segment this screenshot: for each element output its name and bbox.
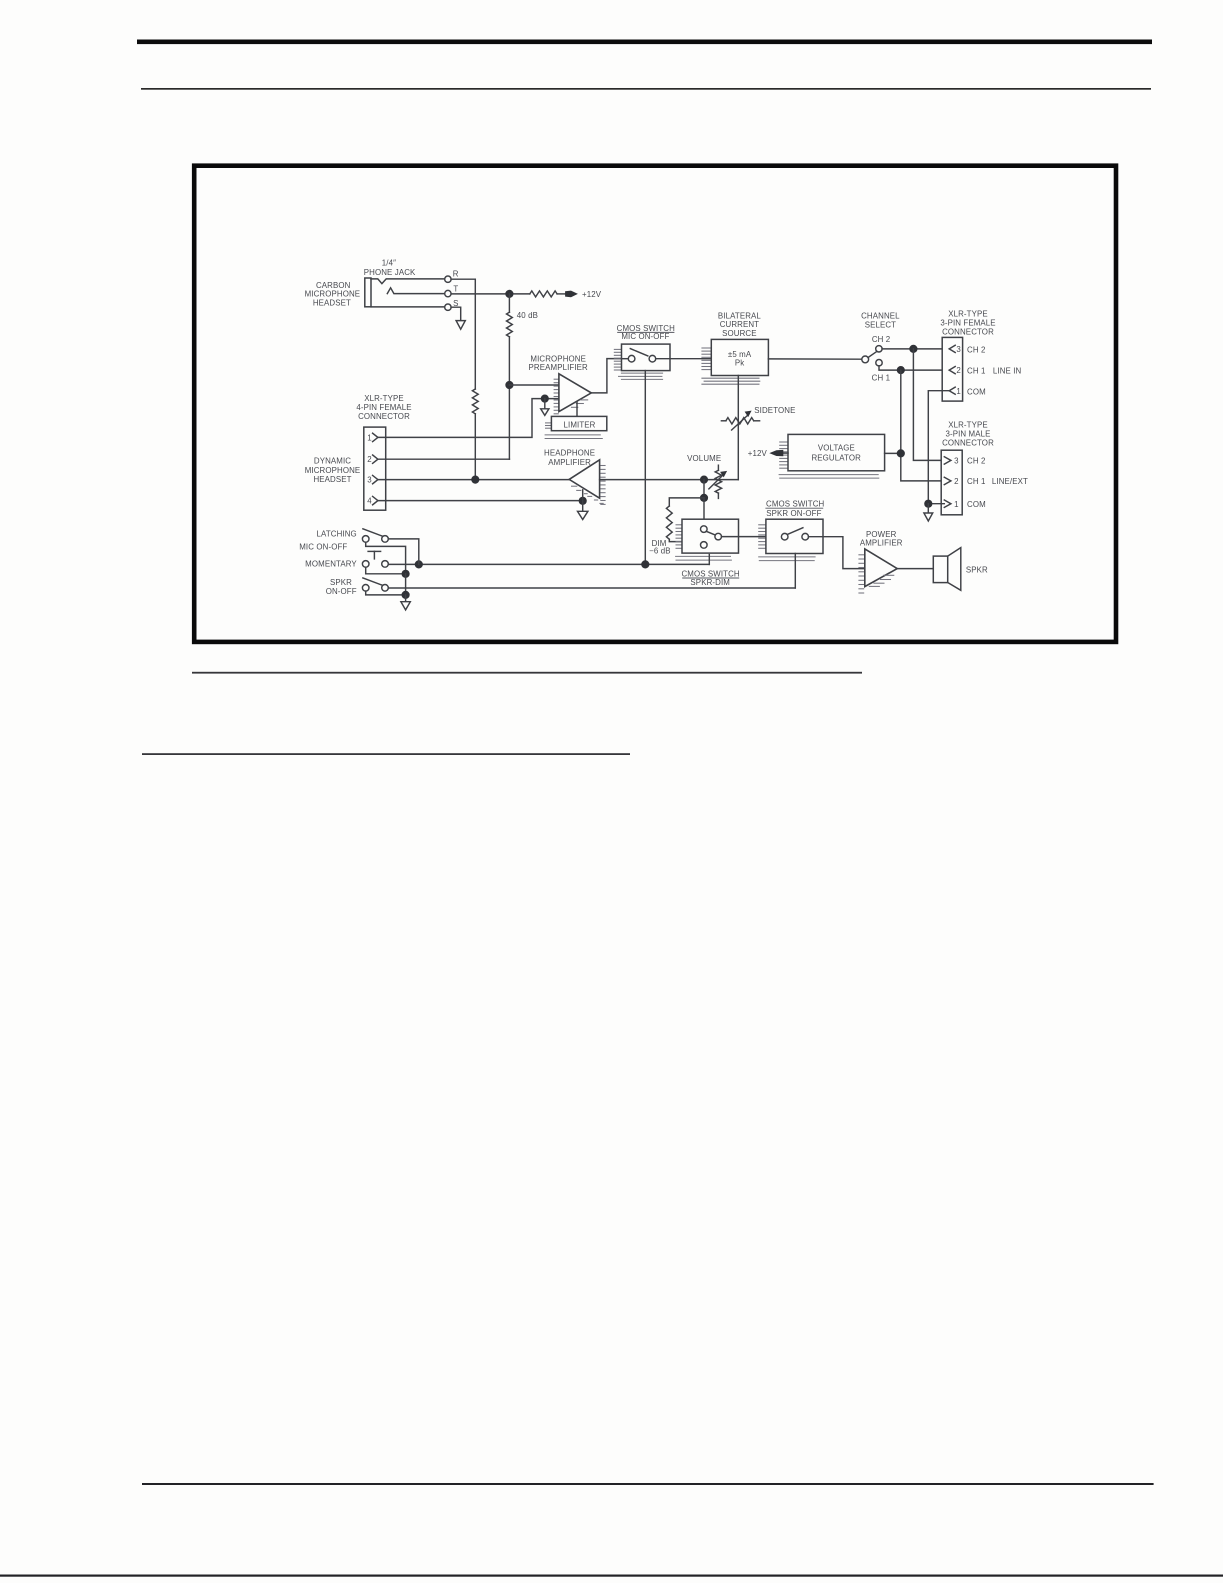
svg-text:CH 2: CH 2 — [967, 346, 985, 355]
pin 3 of J4 — [944, 457, 951, 464]
switch S3 spkr on-off — [362, 585, 369, 592]
wire node to preamp input — [509, 384, 558, 386]
wire momentary common bracket — [366, 567, 406, 574]
svg-text:SOURCE: SOURCE — [722, 329, 756, 338]
switch S2 momentary — [362, 561, 369, 568]
resistor 40 dB — [507, 312, 513, 337]
wire spkr common bracket — [366, 591, 406, 595]
connector J2 body — [364, 427, 386, 510]
svg-text:BILATERAL: BILATERAL — [718, 311, 762, 320]
svg-text:CHANNEL: CHANNEL — [861, 312, 900, 321]
svg-text:COM: COM — [967, 500, 986, 509]
svg-text:T: T — [453, 284, 458, 293]
wire regulator output — [885, 452, 901, 454]
svg-text:4-PIN FEMALE: 4-PIN FEMALE — [356, 403, 411, 412]
svg-text:1/4″: 1/4″ — [382, 259, 396, 268]
wire switch out to bilateral source — [656, 358, 712, 360]
resistor DIM -6dB — [666, 506, 672, 539]
op-amp U3 headphone amplifier hatches — [600, 465, 605, 467]
bilateral current source hatches — [701, 347, 711, 349]
wire control riser to spkr-dim — [708, 555, 710, 565]
CMOS switch U2 mic on-off box — [622, 344, 671, 371]
svg-text:AMPLIFIER: AMPLIFIER — [548, 458, 591, 467]
ground (pin4) — [582, 501, 584, 512]
wire node to spkr-dim switch — [703, 498, 705, 526]
resistor to +12V — [530, 291, 557, 297]
wire CH2 to female pin3 — [882, 348, 949, 350]
connector J3 body — [942, 337, 962, 401]
svg-text:COM: COM — [967, 387, 986, 396]
op-amp U3 headphone amplifier — [569, 460, 599, 498]
wire bilateral to volume line — [737, 376, 739, 480]
switch S1 latching — [362, 536, 369, 543]
svg-text:SPKR: SPKR — [966, 566, 988, 575]
hatches under power amp — [883, 574, 894, 576]
svg-text:SPKR ON-OFF: SPKR ON-OFF — [766, 509, 821, 518]
switch U2 contacts — [628, 355, 635, 362]
wire momentary control line — [388, 563, 709, 565]
svg-text:ON-OFF: ON-OFF — [326, 587, 357, 596]
svg-text:XLR-TYPE: XLR-TYPE — [948, 309, 988, 318]
wire volume node down — [703, 480, 705, 498]
wire female COM to male COM — [928, 391, 949, 504]
hatches under preamp — [580, 399, 588, 401]
wire ring R with contact notch — [371, 279, 445, 284]
voltage regulator hatches — [779, 441, 788, 443]
svg-text:MOMENTARY: MOMENTARY — [305, 560, 357, 569]
wire headphone amp input line — [600, 479, 739, 481]
wire spkr-dim out — [722, 536, 782, 538]
wire node to DIM resistor — [669, 498, 704, 506]
svg-text:LINE IN: LINE IN — [993, 367, 1022, 376]
svg-text:40 dB: 40 dB — [517, 311, 538, 320]
section heading rule — [142, 753, 630, 755]
svg-text:4: 4 — [367, 497, 372, 506]
wire spkr switch out — [388, 587, 795, 589]
svg-text:XLR-TYPE: XLR-TYPE — [364, 394, 404, 403]
junction common node A — [402, 570, 410, 578]
op-amp U7 power amplifier hatches — [858, 554, 864, 556]
+12V supply arrow — [565, 291, 578, 298]
svg-text:CMOS SWITCH: CMOS SWITCH — [766, 500, 824, 509]
terminal S — [445, 304, 451, 310]
wire spkr control riser — [794, 554, 796, 589]
junction pin1 node — [541, 395, 549, 403]
page top rule (thick) — [137, 40, 1152, 45]
connector J4 body — [941, 450, 962, 515]
svg-text:HEADPHONE: HEADPHONE — [544, 449, 595, 458]
svg-text:MICROPHONE: MICROPHONE — [305, 466, 361, 475]
svg-text:AMPLIFIER: AMPLIFIER — [860, 539, 903, 548]
wire mic control line — [644, 371, 646, 565]
junction CH2 node — [909, 345, 917, 353]
hatches under headphone amp — [571, 485, 577, 487]
wire latching out — [388, 539, 419, 565]
potentiometer volume — [717, 465, 719, 470]
wire node to 40dB resistor — [508, 294, 510, 312]
svg-text:3-PIN FEMALE: 3-PIN FEMALE — [940, 318, 995, 327]
svg-text:2: 2 — [956, 366, 961, 375]
svg-text:VOLUME: VOLUME — [687, 454, 721, 463]
speaker LS1 — [933, 556, 947, 583]
wire pin3 to headphone amp — [378, 479, 569, 481]
svg-text:LINE/EXT: LINE/EXT — [992, 477, 1028, 486]
wire common riser — [405, 574, 407, 595]
pin 2 of J4 — [944, 477, 951, 484]
op-amp U1 microphone preamplifier — [559, 374, 591, 412]
wire DIM resistor to switch — [669, 539, 701, 541]
wire spkr on-off to power amp — [809, 537, 865, 569]
svg-text:−6 dB: −6 dB — [649, 546, 670, 555]
svg-text:+12V: +12V — [748, 449, 768, 458]
limiter hatches — [545, 422, 551, 424]
junction pin3 node — [471, 476, 479, 484]
svg-text:CONNECTOR: CONNECTOR — [942, 439, 994, 448]
svg-text:2: 2 — [367, 455, 372, 464]
junction latching node — [415, 560, 423, 568]
svg-text:CARBON: CARBON — [316, 281, 351, 290]
svg-text:CONNECTOR: CONNECTOR — [942, 327, 994, 336]
junction volume top node — [700, 476, 708, 484]
svg-text:LATCHING: LATCHING — [317, 530, 357, 539]
phone jack J1 sleeve — [365, 278, 371, 307]
svg-text:CH 2: CH 2 — [872, 335, 890, 344]
pin 3 of J3 — [949, 345, 955, 352]
svg-text:3: 3 — [956, 345, 961, 354]
voltage regulator U6 box — [788, 434, 885, 470]
svg-text:CONNECTOR: CONNECTOR — [358, 412, 410, 421]
junction CH1 node — [897, 366, 905, 374]
wire 40dB to preamp node — [508, 337, 510, 459]
CMOS switch U4 spkr-dim box — [682, 519, 739, 553]
svg-text:HEADSET: HEADSET — [313, 475, 351, 484]
+12V output arrow — [783, 452, 788, 454]
pin 1 of J3 — [949, 387, 955, 394]
junction pin4 node — [579, 497, 587, 505]
switch U5 contacts — [781, 533, 788, 540]
svg-text:SPKR: SPKR — [330, 578, 352, 587]
svg-text:CH 1: CH 1 — [967, 477, 985, 486]
wire resistor to arrow — [557, 293, 566, 295]
wire CH2 node to male pin3 — [913, 349, 944, 461]
svg-text:Pk: Pk — [735, 358, 744, 367]
junction preamp input node — [505, 381, 513, 389]
wire T to +12V — [451, 293, 530, 295]
limiter box — [551, 416, 606, 430]
svg-text:DYNAMIC: DYNAMIC — [314, 457, 351, 466]
svg-text:SPKR-DIM: SPKR-DIM — [690, 578, 730, 587]
figure frame — [194, 166, 1116, 642]
svg-text:2: 2 — [954, 477, 959, 486]
figure caption rule — [192, 672, 862, 674]
wire pin4 — [378, 500, 583, 502]
resistor on R line — [472, 389, 478, 414]
svg-text:MIC ON-OFF: MIC ON-OFF — [621, 332, 669, 341]
wire pin1 to preamp — [378, 399, 559, 438]
svg-text:3: 3 — [954, 457, 959, 466]
ground (jack sleeve) — [456, 321, 465, 330]
svg-text:CH 2: CH 2 — [967, 457, 985, 466]
wire pin4 node to amp — [582, 490, 584, 501]
op-amp U1 microphone preamplifier hatches — [554, 378, 559, 380]
wire preamp output to CMOS switch — [591, 359, 621, 393]
wire power amp to speaker — [897, 568, 933, 570]
terminal R — [445, 276, 451, 282]
pin 1 of J4 — [944, 500, 951, 507]
wire R to node (vertical drop) — [451, 279, 475, 389]
svg-text:MIC ON-OFF: MIC ON-OFF — [299, 542, 347, 551]
svg-text:REGULATOR: REGULATOR — [811, 453, 861, 462]
wire R resistor to pin3 line — [474, 414, 476, 480]
svg-text:LIMITER: LIMITER — [564, 420, 596, 429]
wire tip T with contact peak — [387, 288, 444, 294]
wire latching common bracket — [366, 542, 406, 574]
svg-text:1: 1 — [956, 387, 961, 396]
svg-text:R: R — [453, 269, 459, 278]
CMOS switch U5 hatches — [758, 524, 766, 526]
svg-text:HEADSET: HEADSET — [313, 298, 351, 307]
svg-text:CH 1: CH 1 — [967, 367, 985, 376]
wire preamp to limiter — [576, 402, 578, 417]
wire bilateral to channel select — [768, 358, 861, 360]
svg-text:POWER: POWER — [866, 530, 897, 539]
svg-text:CH 1: CH 1 — [872, 373, 890, 382]
ground (COM) — [927, 504, 929, 513]
bilateral current source box — [711, 339, 768, 375]
wire pin2 to 40dB line — [378, 458, 510, 460]
CMOS switch U2 hatches — [614, 348, 622, 350]
ground (switch common) — [405, 595, 407, 602]
svg-text:XLR-TYPE: XLR-TYPE — [948, 421, 988, 430]
wire S to ground — [451, 307, 461, 320]
wire CH1 to female pin2 — [879, 366, 949, 370]
CMOS switch U5 spkr on-off box — [766, 519, 823, 553]
ground (preamp input) — [544, 399, 546, 409]
junction mic control node — [641, 560, 649, 568]
footer rule upper — [142, 1483, 1154, 1485]
junction regulator node — [897, 449, 905, 457]
wire into switch — [622, 358, 629, 360]
pin 2 of J3 — [949, 367, 955, 374]
junction COM node — [924, 500, 932, 508]
op-amp U7 power amplifier — [865, 549, 897, 587]
svg-text:3-PIN MALE: 3-PIN MALE — [945, 430, 990, 439]
terminal T — [445, 290, 451, 296]
svg-text:PREAMPLIFIER: PREAMPLIFIER — [529, 363, 588, 372]
potentiometer sidetone — [721, 420, 726, 422]
switch U4 contacts — [701, 526, 708, 533]
wire COM to male pin1 — [928, 503, 944, 505]
page top rule (thin) — [141, 88, 1151, 90]
junction volume bottom node — [700, 494, 708, 502]
CMOS switch U4 hatches — [676, 524, 683, 526]
wire sleeve S — [371, 306, 445, 308]
svg-text:VOLTAGE: VOLTAGE — [818, 443, 855, 452]
footer rule bottom — [0, 1575, 1223, 1577]
svg-text:1: 1 — [367, 433, 372, 442]
svg-text:PHONE JACK: PHONE JACK — [364, 268, 416, 277]
svg-text:1: 1 — [954, 500, 959, 509]
svg-text:CMOS SWITCH: CMOS SWITCH — [681, 569, 739, 578]
junction T node — [505, 290, 513, 298]
svg-text:SIDETONE: SIDETONE — [754, 406, 795, 415]
junction common node B — [402, 591, 410, 599]
svg-text:3: 3 — [367, 476, 372, 485]
svg-text:SELECT: SELECT — [865, 321, 896, 330]
wire CH1 node to male pin2 — [901, 370, 945, 481]
switch S4 channel select — [862, 356, 869, 363]
svg-text:+12V: +12V — [582, 290, 602, 299]
